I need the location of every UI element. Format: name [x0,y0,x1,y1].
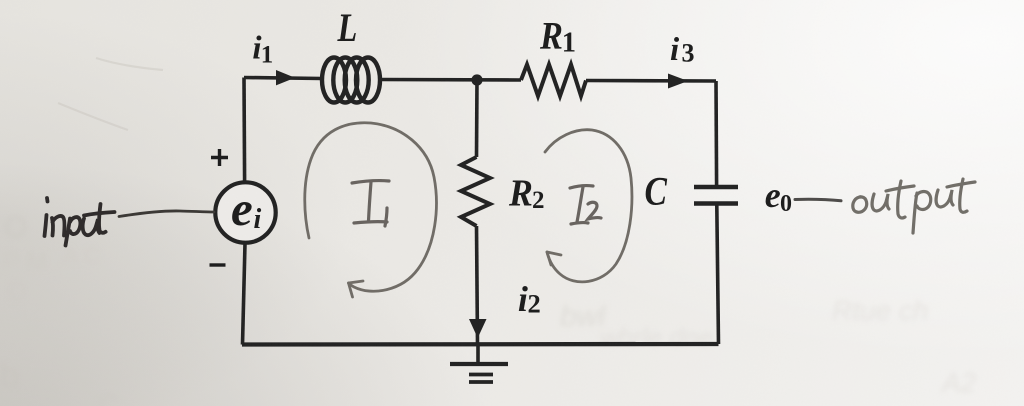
resistor R1 [521,65,586,97]
wire left side lower [243,244,246,345]
handwritten word output (pencil) [853,179,975,233]
current arrow i1 [276,70,295,85]
pencil label I2 [570,186,601,224]
wire left side upper [242,78,246,182]
pencil mesh loop I1 [305,123,437,297]
node junction dot [471,74,482,85]
label C [645,169,668,213]
label L [337,6,358,50]
resistor R2 [461,157,490,226]
capacitor C [694,185,738,189]
current arrow i3 [668,74,688,89]
ink lead line from input to source [119,211,214,217]
pencil label I1 [352,181,389,226]
wire right side lower [717,206,719,345]
wire inductor to junction [381,78,521,82]
wire R1 to top-right corner [586,79,716,83]
pencil mesh loop I2 [545,130,632,282]
ground [450,346,508,382]
label R2 [508,172,533,214]
wire bottom [242,342,719,347]
inductor L [322,58,380,103]
pencil dash after e0 [795,199,841,200]
wire middle branch lower [477,226,478,344]
label minus [210,263,226,266]
current arrow i2 (down) [469,319,487,338]
source ei circle [215,182,275,242]
label R1 [539,14,563,58]
handwritten word input (ink) [45,198,115,246]
label + [211,149,228,166]
wire middle branch upper [475,80,479,157]
wire top-left horizontal segment [244,78,322,79]
wire right side upper [714,81,718,186]
